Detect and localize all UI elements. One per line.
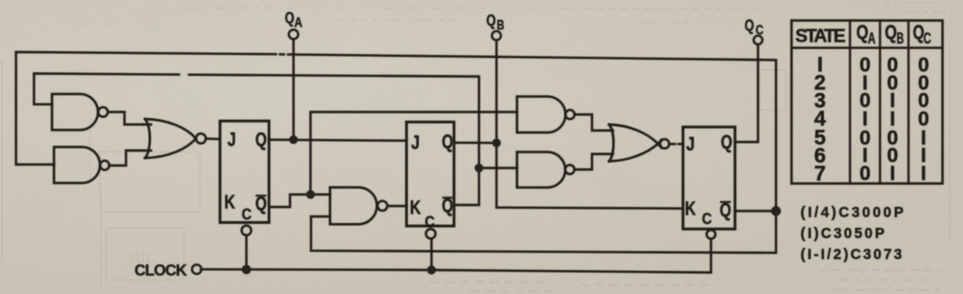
- wire: FF3 Q up to QC terminal: [735, 45, 758, 142]
- svg-text:C: C: [756, 23, 764, 38]
- wire: FF1 clock riser: [245, 236, 247, 270]
- node clock to FF1: [242, 265, 251, 274]
- wire: NOR G6 output to FF3 J: [670, 143, 684, 145]
- flip-flop U1 pin labels J Q K Qbar C: [224, 130, 267, 223]
- flip-flop U3 pin labels J Q K Qbar C: [685, 133, 732, 229]
- svg-text:C: C: [923, 30, 931, 47]
- NAND G2 (bottom-left inverter): [54, 147, 109, 183]
- terminal QB: [492, 31, 501, 40]
- wire: FF1 Qbar branch up to NAND G4 input: [311, 112, 518, 195]
- svg-text:STATE: STATE: [795, 25, 846, 46]
- NAND G5 (bottom-right inverter): [517, 152, 574, 188]
- wire: NAND G2 output jog to NOR G0 lower input: [109, 151, 151, 166]
- svg-text:B: B: [897, 30, 904, 47]
- flip-flop U1 clock bubble: [242, 226, 252, 236]
- wire: NAND G3 output to FF2 K: [388, 205, 407, 207]
- label part numbers: [801, 205, 904, 263]
- wire: NAND G4 output jog to NOR G6 upper input: [575, 115, 614, 131]
- terminal QC: [754, 36, 763, 45]
- NAND G4 (top-right inverter): [517, 97, 575, 133]
- table state column rows 1-7: [814, 54, 826, 186]
- wire: NAND G5 output jog to NOR G6 lower input: [575, 154, 614, 170]
- terminal CLOCK: [192, 265, 201, 274]
- table QB column bits: [887, 54, 898, 185]
- wire: NAND G1 output jog to NOR G0 upper input: [108, 112, 151, 125]
- svg-text:J: J: [686, 134, 695, 155]
- svg-text:Q: Q: [720, 200, 732, 221]
- node label QA: [285, 10, 303, 30]
- node FF1 Qbar / G3 input: [306, 190, 315, 199]
- wire: QA riser: [292, 39, 294, 140]
- wire: QB riser down to FF3 K: [497, 40, 684, 208]
- svg-text:A: A: [868, 30, 876, 47]
- terminal QA: [289, 30, 298, 39]
- svg-text:C: C: [425, 214, 435, 231]
- wire: FF2 Qbar feedback net (second long wire, drop at x=479 to FF2 Qbar): [34, 74, 517, 206]
- svg-text:CLOCK: CLOCK: [135, 262, 188, 279]
- svg-text:C: C: [242, 206, 252, 223]
- wire: CLOCK line: [201, 239, 711, 273]
- table QA column bits: [859, 54, 870, 185]
- NOR G0 (left OR gate with output bubble): [145, 119, 206, 158]
- table QC column bits: [918, 54, 929, 185]
- svg-text:Q: Q: [745, 18, 755, 35]
- flip-flop U1 box: [220, 121, 269, 223]
- node QB tap on FF2 Q: [492, 139, 501, 148]
- flip-flop U2 pin labels J Q K Qbar C: [410, 132, 454, 231]
- svg-text:Q: Q: [255, 194, 267, 215]
- svg-text:7: 7: [814, 162, 826, 185]
- wire: NOR G0 output to FF1 J: [206, 137, 220, 140]
- flip-flop U2 box: [407, 122, 455, 226]
- svg-text:Q: Q: [442, 132, 454, 153]
- svg-text:I: I: [921, 163, 927, 185]
- flip-flop U3 box: [683, 127, 735, 229]
- svg-text:Q: Q: [486, 13, 496, 30]
- flip-flop U3 clock bubble: [707, 230, 716, 239]
- node FF3 Qbar junction: [771, 206, 781, 216]
- svg-text:Q: Q: [285, 10, 295, 27]
- wire: FF1 Qbar to NAND G3 top input: [269, 195, 330, 208]
- NAND G1 (top-left inverter): [52, 94, 108, 130]
- state table frame: [792, 21, 943, 184]
- svg-text:A: A: [294, 15, 302, 30]
- wire: FF2 clock riser: [430, 239, 432, 270]
- wire: FF3 Qbar feedback net (top long wire, right drop, bottom return to NAND G3): [16, 52, 776, 253]
- svg-text:J: J: [411, 133, 420, 154]
- svg-text:Q: Q: [856, 21, 868, 44]
- node label QC: [745, 18, 764, 38]
- svg-text:Q: Q: [442, 196, 454, 217]
- svg-text:Q: Q: [255, 130, 267, 151]
- NAND G3 (middle, feeds FF2 K): [330, 187, 387, 224]
- wire: FF1 Q to FF2 J: [269, 140, 407, 141]
- svg-text:C: C: [702, 211, 712, 228]
- table header STATE QA QB QC: [795, 21, 931, 47]
- NOR G6 (right OR gate with output bubble): [609, 125, 669, 162]
- node label QB: [486, 13, 504, 33]
- node QA tap on FF1 Q: [289, 135, 298, 144]
- flip-flop U2 clock bubble: [426, 229, 436, 239]
- svg-text:0: 0: [859, 163, 870, 185]
- svg-text:K: K: [685, 199, 696, 220]
- svg-text:Q: Q: [721, 133, 733, 154]
- svg-text:B: B: [497, 17, 505, 32]
- svg-text:K: K: [224, 193, 235, 214]
- svg-text:Q: Q: [885, 21, 897, 44]
- wire: FF2 Q to QB node: [454, 141, 497, 144]
- svg-text:(I-I/2)C3073: (I-I/2)C3073: [801, 247, 903, 263]
- svg-text:K: K: [410, 198, 421, 219]
- svg-text:(I/4)C3000P: (I/4)C3000P: [801, 205, 904, 221]
- svg-text:J: J: [227, 130, 236, 151]
- wire: FF3 Qbar to junction: [735, 210, 776, 212]
- svg-text:I: I: [890, 163, 896, 185]
- node FF2 Qbar / G5 input: [475, 164, 484, 173]
- node clock to FF2: [427, 266, 436, 275]
